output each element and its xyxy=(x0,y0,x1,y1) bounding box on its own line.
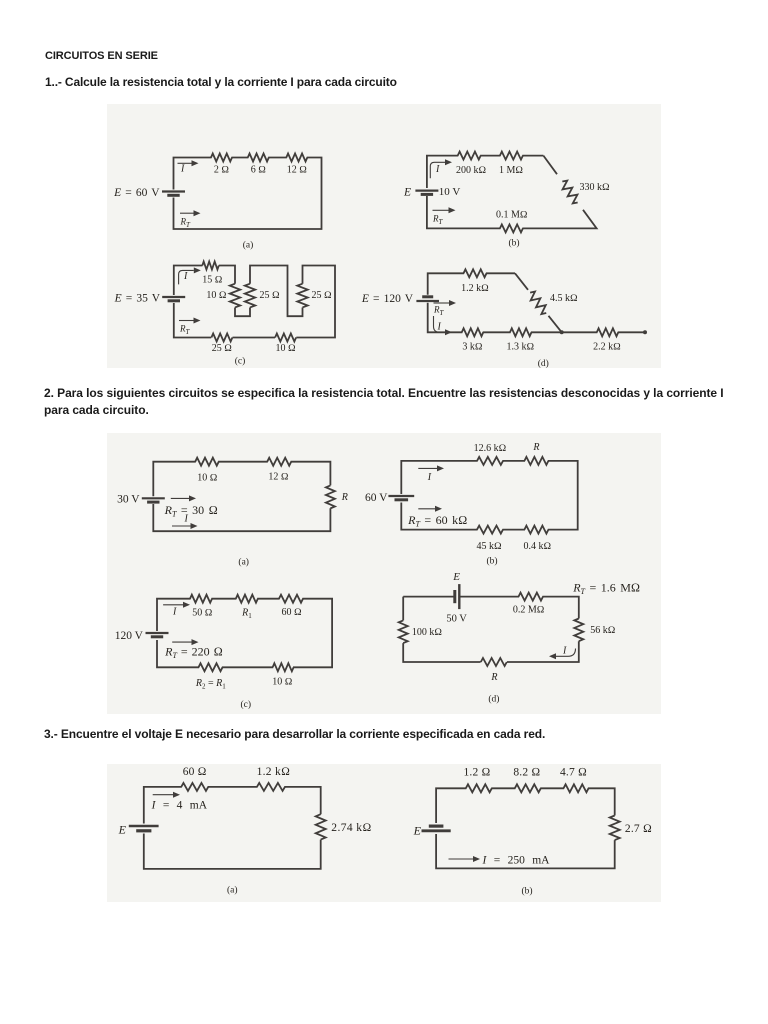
resistor 1.2 ohm (3b) xyxy=(466,786,491,790)
panel: problem 2 figure box xyxy=(107,433,661,714)
resistor 2.2k (1d) xyxy=(597,330,617,334)
resistor 2.74k vertical (3a) xyxy=(319,815,323,839)
svg-text:60 Ω: 60 Ω xyxy=(282,607,303,618)
resistor 1.3k (1d) xyxy=(511,330,531,334)
resistor 0.1M (1b) xyxy=(501,226,523,230)
svg-text:(c): (c) xyxy=(241,699,252,710)
wire: circuit 2a loop xyxy=(153,462,330,497)
resistor R top (2b) xyxy=(525,459,548,463)
wire: circuit 2c loop xyxy=(157,599,332,668)
resistor R2 bottom (2c) xyxy=(199,665,222,669)
svg-text:3 kΩ: 3 kΩ xyxy=(462,342,483,353)
svg-text:0.2 MΩ: 0.2 MΩ xyxy=(513,605,545,616)
svg-text:4.5 kΩ: 4.5 kΩ xyxy=(550,293,578,304)
wire: 1d diagonal upper xyxy=(515,273,528,290)
resistor 1.2k (1d) xyxy=(464,271,486,275)
arrow RT (1c) xyxy=(179,320,194,322)
svg-text:R: R xyxy=(490,672,497,683)
battery E 120V (1d) xyxy=(422,295,433,298)
svg-text:0.4 kΩ: 0.4 kΩ xyxy=(523,541,551,552)
svg-text:4.7 Ω: 4.7 Ω xyxy=(560,767,587,779)
resistor R vertical (2a) xyxy=(328,486,332,508)
svg-text:I: I xyxy=(180,164,185,175)
resistor 2 ohm (1a) xyxy=(212,155,232,159)
svg-text:10 Ω: 10 Ω xyxy=(272,677,293,688)
svg-text:45 kΩ: 45 kΩ xyxy=(477,541,503,552)
svg-text:E: E xyxy=(413,824,422,838)
wire: circuit 3a loop xyxy=(144,787,321,824)
svg-text:1.2 kΩ: 1.2 kΩ xyxy=(461,283,489,294)
resistor 10 ohm (2a) xyxy=(196,460,218,464)
resistor 50 ohm (2c) xyxy=(191,597,212,601)
svg-text:10 V: 10 V xyxy=(439,186,461,198)
resistor 0.4k (2b) xyxy=(525,527,548,531)
svg-text:(b): (b) xyxy=(521,886,532,897)
resistor 330k diagonal (1b) xyxy=(559,179,582,205)
resistor 12 ohm (1a) xyxy=(287,155,307,159)
wire: circuit 3b loop xyxy=(436,788,615,823)
heading: problem 1 xyxy=(45,75,397,89)
svg-text:I: I xyxy=(562,646,567,657)
resistor 25 ohm vertical 2 (1c) xyxy=(300,284,304,307)
svg-text:E: E xyxy=(452,571,460,583)
svg-text:(d): (d) xyxy=(488,694,499,705)
svg-text:I: I xyxy=(183,271,188,282)
svg-text:30 V: 30 V xyxy=(117,494,140,506)
battery E 60V (1a) xyxy=(162,190,185,192)
resistor 0.2M (2d) xyxy=(519,594,542,598)
resistor 45k (2b) xyxy=(478,527,503,531)
svg-text:2.7 Ω: 2.7 Ω xyxy=(625,823,652,835)
svg-text:I = 4 mA: I = 4 mA xyxy=(151,800,208,812)
wire: 1d diagonal lower xyxy=(549,316,562,333)
resistor 2.7 ohm vertical (3b) xyxy=(613,816,617,839)
svg-text:50 V: 50 V xyxy=(446,614,467,625)
svg-text:(b): (b) xyxy=(486,556,497,567)
wire: 1d bottom xyxy=(428,303,645,333)
arrow I (3b) xyxy=(449,858,474,860)
svg-text:60 V: 60 V xyxy=(365,492,388,504)
svg-text:2.2 kΩ: 2.2 kΩ xyxy=(593,342,621,353)
current hook arrow I (1d) xyxy=(434,316,446,332)
svg-text:1.3 kΩ: 1.3 kΩ xyxy=(507,342,535,353)
node end terminal (1d) xyxy=(643,330,647,334)
wire: circuit 1b outline xyxy=(427,156,544,188)
svg-text:1.2 Ω: 1.2 Ω xyxy=(463,767,490,779)
resistor 8.2 ohm (3b) xyxy=(515,786,540,790)
arrow RT (2b) xyxy=(418,508,435,510)
resistor 25 ohm vertical 1 (1c) xyxy=(248,284,252,307)
svg-text:I = 250 mA: I = 250 mA xyxy=(482,855,551,867)
svg-text:(c): (c) xyxy=(235,356,246,367)
current arrow I pointing left (2d) xyxy=(556,649,576,657)
resistor R bottom (2d) xyxy=(481,660,506,664)
arrow I (2c) xyxy=(163,604,183,606)
resistor 3k (1d) xyxy=(462,330,482,334)
current arrow I (1a) xyxy=(178,162,192,164)
resistor 25 ohm bottom (1c) xyxy=(212,335,232,339)
resistor 56k vertical (2d) xyxy=(577,619,581,641)
wire: 1b diagonal top xyxy=(543,156,557,175)
svg-text:I: I xyxy=(172,606,177,617)
arrow I (2a) xyxy=(172,525,191,527)
svg-text:1 MΩ: 1 MΩ xyxy=(499,165,523,176)
resistor 60 ohm (2c) xyxy=(280,597,303,601)
resistor 10 ohm bottom (1c) xyxy=(276,335,296,339)
heading: problem 3 xyxy=(44,727,545,741)
resistor 10 ohm vertical (1c) xyxy=(233,284,237,307)
battery E (3b) short plate on top xyxy=(429,824,444,827)
svg-text:2.74 kΩ: 2.74 kΩ xyxy=(331,822,371,834)
svg-text:(b): (b) xyxy=(508,238,519,249)
svg-text:(d): (d) xyxy=(538,358,549,369)
svg-text:25 Ω: 25 Ω xyxy=(212,343,233,354)
current hook arrow I (1c) xyxy=(179,270,194,284)
resistor 100k vertical (2d) xyxy=(401,621,405,643)
svg-text:E = 120 V: E = 120 V xyxy=(361,293,414,305)
svg-text:E = 35 V: E = 35 V xyxy=(114,293,161,305)
battery 60V (2b) xyxy=(388,495,414,497)
svg-text:E: E xyxy=(118,823,127,837)
svg-text:I: I xyxy=(437,322,442,333)
svg-text:100 kΩ: 100 kΩ xyxy=(412,627,443,638)
svg-text:I: I xyxy=(184,514,189,525)
svg-text:(a): (a) xyxy=(243,240,254,251)
resistor R1 (2c) xyxy=(236,597,257,601)
battery 30V (2a) xyxy=(142,497,165,499)
battery 120V (2c) xyxy=(146,632,169,634)
svg-text:R: R xyxy=(341,492,348,503)
svg-text:10 Ω: 10 Ω xyxy=(197,473,218,484)
arrow RT (1a) xyxy=(180,212,194,214)
svg-text:12 Ω: 12 Ω xyxy=(287,165,308,176)
resistor 1M (1b) xyxy=(501,153,523,157)
battery E 50V on top wire (2d) xyxy=(453,590,456,603)
svg-text:56 kΩ: 56 kΩ xyxy=(590,625,616,636)
svg-text:E: E xyxy=(403,187,411,199)
wire: circuit 1d top xyxy=(428,273,515,295)
svg-text:15 Ω: 15 Ω xyxy=(202,275,223,286)
svg-text:R: R xyxy=(532,442,539,453)
svg-text:10 Ω: 10 Ω xyxy=(276,343,297,354)
wire: circuit 2d loop xyxy=(403,596,455,598)
svg-text:2 Ω: 2 Ω xyxy=(214,165,230,176)
svg-text:0.1 MΩ: 0.1 MΩ xyxy=(496,209,528,220)
battery E 35V (1c) xyxy=(162,296,185,298)
svg-text:50 Ω: 50 Ω xyxy=(192,608,213,619)
svg-text:25 Ω: 25 Ω xyxy=(260,290,281,301)
resistor 12 ohm (2a) xyxy=(268,460,291,464)
resistor 10 ohm bottom (2c) xyxy=(273,665,293,669)
arrow RT (1d) xyxy=(434,302,450,304)
resistor 4.5k diagonal (1d) xyxy=(527,290,550,316)
svg-text:200 kΩ: 200 kΩ xyxy=(456,165,487,176)
svg-text:I: I xyxy=(427,472,432,483)
svg-text:25 Ω: 25 Ω xyxy=(312,290,333,301)
svg-text:RT = 30 Ω: RT = 30 Ω xyxy=(164,503,218,519)
svg-text:6 Ω: 6 Ω xyxy=(251,165,267,176)
svg-text:(a): (a) xyxy=(238,557,249,568)
svg-text:60 Ω: 60 Ω xyxy=(183,766,207,778)
heading: CIRCUITOS EN SERIE xyxy=(45,50,158,62)
heading: problem 2 (2 lines) xyxy=(44,385,724,420)
arrow RT (1b) xyxy=(433,209,449,211)
battery E 10V (1b) xyxy=(415,190,438,192)
svg-text:330 kΩ: 330 kΩ xyxy=(580,182,611,193)
resistor 200k (1b) xyxy=(458,153,480,157)
resistor 4.7 ohm (3b) xyxy=(564,786,588,790)
svg-text:1.2 kΩ: 1.2 kΩ xyxy=(257,766,291,778)
arrow I (3a) xyxy=(153,794,173,796)
svg-text:12 Ω: 12 Ω xyxy=(268,472,289,483)
panel: problem 3 figure box xyxy=(107,764,661,902)
wire: circuit 1a loop xyxy=(174,158,322,230)
resistor 60 ohm (3a) xyxy=(182,785,208,789)
arrow I (2b) xyxy=(418,467,437,469)
arrow RT (2c) xyxy=(172,641,191,643)
svg-text:R2 = R1: R2 = R1 xyxy=(195,678,226,691)
wire: circuit 1c serpentine xyxy=(174,266,203,296)
resistor 15 ohm (1c) xyxy=(203,263,218,267)
resistor 1.2k (3a) xyxy=(258,785,285,789)
svg-text:10 Ω: 10 Ω xyxy=(206,290,227,301)
battery E (3a) xyxy=(129,825,159,828)
resistor 12.6k (2b) xyxy=(478,459,503,463)
svg-text:(a): (a) xyxy=(227,885,238,896)
svg-text:8.2 Ω: 8.2 Ω xyxy=(513,767,540,779)
svg-text:120 V: 120 V xyxy=(115,630,144,642)
current hook arrow I (1b) xyxy=(430,162,445,178)
svg-text:I: I xyxy=(435,164,440,175)
panel: problem 1 figure box xyxy=(107,104,661,368)
node junction (1d) xyxy=(560,330,564,334)
svg-text:12.6 kΩ: 12.6 kΩ xyxy=(474,443,507,454)
wire: 1b diagonal bottom + bottom/left xyxy=(427,196,597,228)
resistor 6 ohm (1a) xyxy=(248,155,268,159)
svg-text:E = 60 V: E = 60 V xyxy=(113,187,160,199)
wire: circuit 2b loop xyxy=(401,461,577,530)
arrow at battery (2a) xyxy=(171,497,189,499)
